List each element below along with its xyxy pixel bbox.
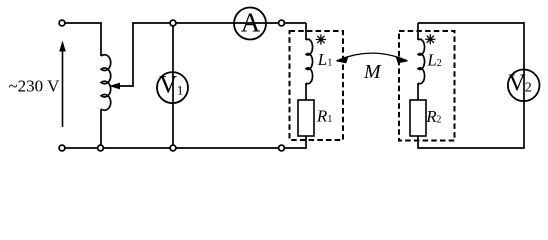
svg-text:2: 2 [436,114,441,125]
svg-text:2: 2 [437,58,442,69]
svg-text:V: V [508,71,526,97]
svg-text:L: L [317,50,327,69]
svg-text:1: 1 [327,114,332,125]
svg-text:R: R [316,107,328,126]
svg-text:A: A [241,7,261,37]
svg-text:1: 1 [177,83,184,98]
svg-text:M: M [363,61,382,83]
svg-text:V: V [159,72,177,99]
svg-text:1: 1 [327,57,332,68]
svg-text:L: L [426,51,436,70]
svg-text:~230 V: ~230 V [8,76,60,95]
svg-text:2: 2 [525,81,532,96]
